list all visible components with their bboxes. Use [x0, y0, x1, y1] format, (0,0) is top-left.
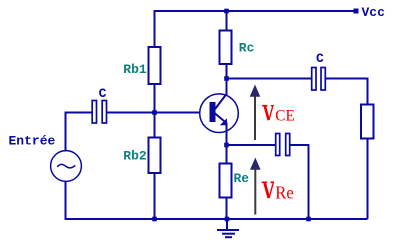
- wire Rb2 to bottom rail: [154, 173, 156, 219]
- resistor Re: [220, 164, 232, 198]
- svg-text:Rb2: Rb2: [123, 148, 147, 163]
- transistor Q1 collector diagonal: [215, 94, 227, 109]
- svg-text:Vcc: Vcc: [362, 5, 386, 20]
- transistor Q1 circle: [200, 94, 239, 133]
- wire Rc to collector node: [226, 64, 228, 95]
- node Vcc terminal square: [354, 9, 359, 14]
- capacitor C input plate 2: [102, 101, 106, 124]
- capacitor C output plate 2: [321, 68, 325, 91]
- wire emitter down to Re: [226, 123, 228, 164]
- resistor Rc: [220, 31, 232, 65]
- arrow VCE head: [250, 85, 261, 97]
- node junction emitter / bypass: [224, 143, 229, 148]
- wire Rb1 to base node to Rb2: [154, 84, 156, 138]
- svg-text:Re: Re: [234, 171, 250, 186]
- transistor Q1 base bar: [210, 102, 216, 122]
- wire bottom rail: [66, 181, 368, 219]
- resistor load (output): [361, 105, 374, 139]
- wire emitter node to bypass capacitor: [227, 144, 276, 146]
- svg-text:Rb1: Rb1: [123, 62, 147, 77]
- svg-text:C: C: [99, 86, 107, 101]
- svg-text:C: C: [316, 51, 324, 66]
- capacitor C output plate 1: [312, 68, 316, 91]
- wire source to input capacitor: [66, 113, 93, 152]
- wire output capacitor to load: [326, 79, 368, 105]
- wire top rail: [155, 11, 356, 47]
- wire rail to Rc: [226, 11, 228, 31]
- node junction collector: [224, 76, 229, 81]
- wire load to bottom rail: [367, 139, 369, 220]
- arrow VCE shaft: [254, 97, 256, 141]
- transistor Q1 emitter diagonal: [215, 113, 228, 124]
- svg-text:Entrée: Entrée: [9, 133, 56, 148]
- wire collector node to output capacitor: [227, 78, 312, 80]
- node junction bypass bottom rail: [306, 217, 311, 222]
- wire bypass capacitor to bottom rail: [290, 145, 309, 219]
- label VCE: [262, 106, 295, 125]
- node junction base / divider: [152, 110, 157, 115]
- svg-text:Re: Re: [275, 183, 294, 203]
- node junction Rb2 bottom rail: [152, 217, 157, 222]
- svg-text:Rc: Rc: [239, 41, 255, 56]
- arrow VRe shaft: [254, 169, 256, 215]
- node junction top rail / Rc: [224, 9, 229, 14]
- ground: [217, 219, 239, 237]
- label VRe: [262, 182, 294, 202]
- resistor Rb1: [149, 47, 161, 84]
- source AC sine symbol: [57, 164, 75, 168]
- transistor Q1 emitter arrowhead: [220, 118, 227, 125]
- wire base line: [107, 112, 201, 114]
- capacitor bypass plate 1: [276, 134, 280, 156]
- arrow VRe head: [250, 158, 261, 170]
- source AC generator circle: [51, 151, 82, 182]
- svg-text:CE: CE: [275, 108, 295, 125]
- wire Re to bottom rail: [226, 198, 228, 220]
- node junction Re bottom rail: [225, 217, 230, 222]
- capacitor C input plate 1: [92, 101, 96, 124]
- capacitor bypass plate 2: [286, 134, 290, 156]
- resistor Rb2: [149, 138, 161, 174]
